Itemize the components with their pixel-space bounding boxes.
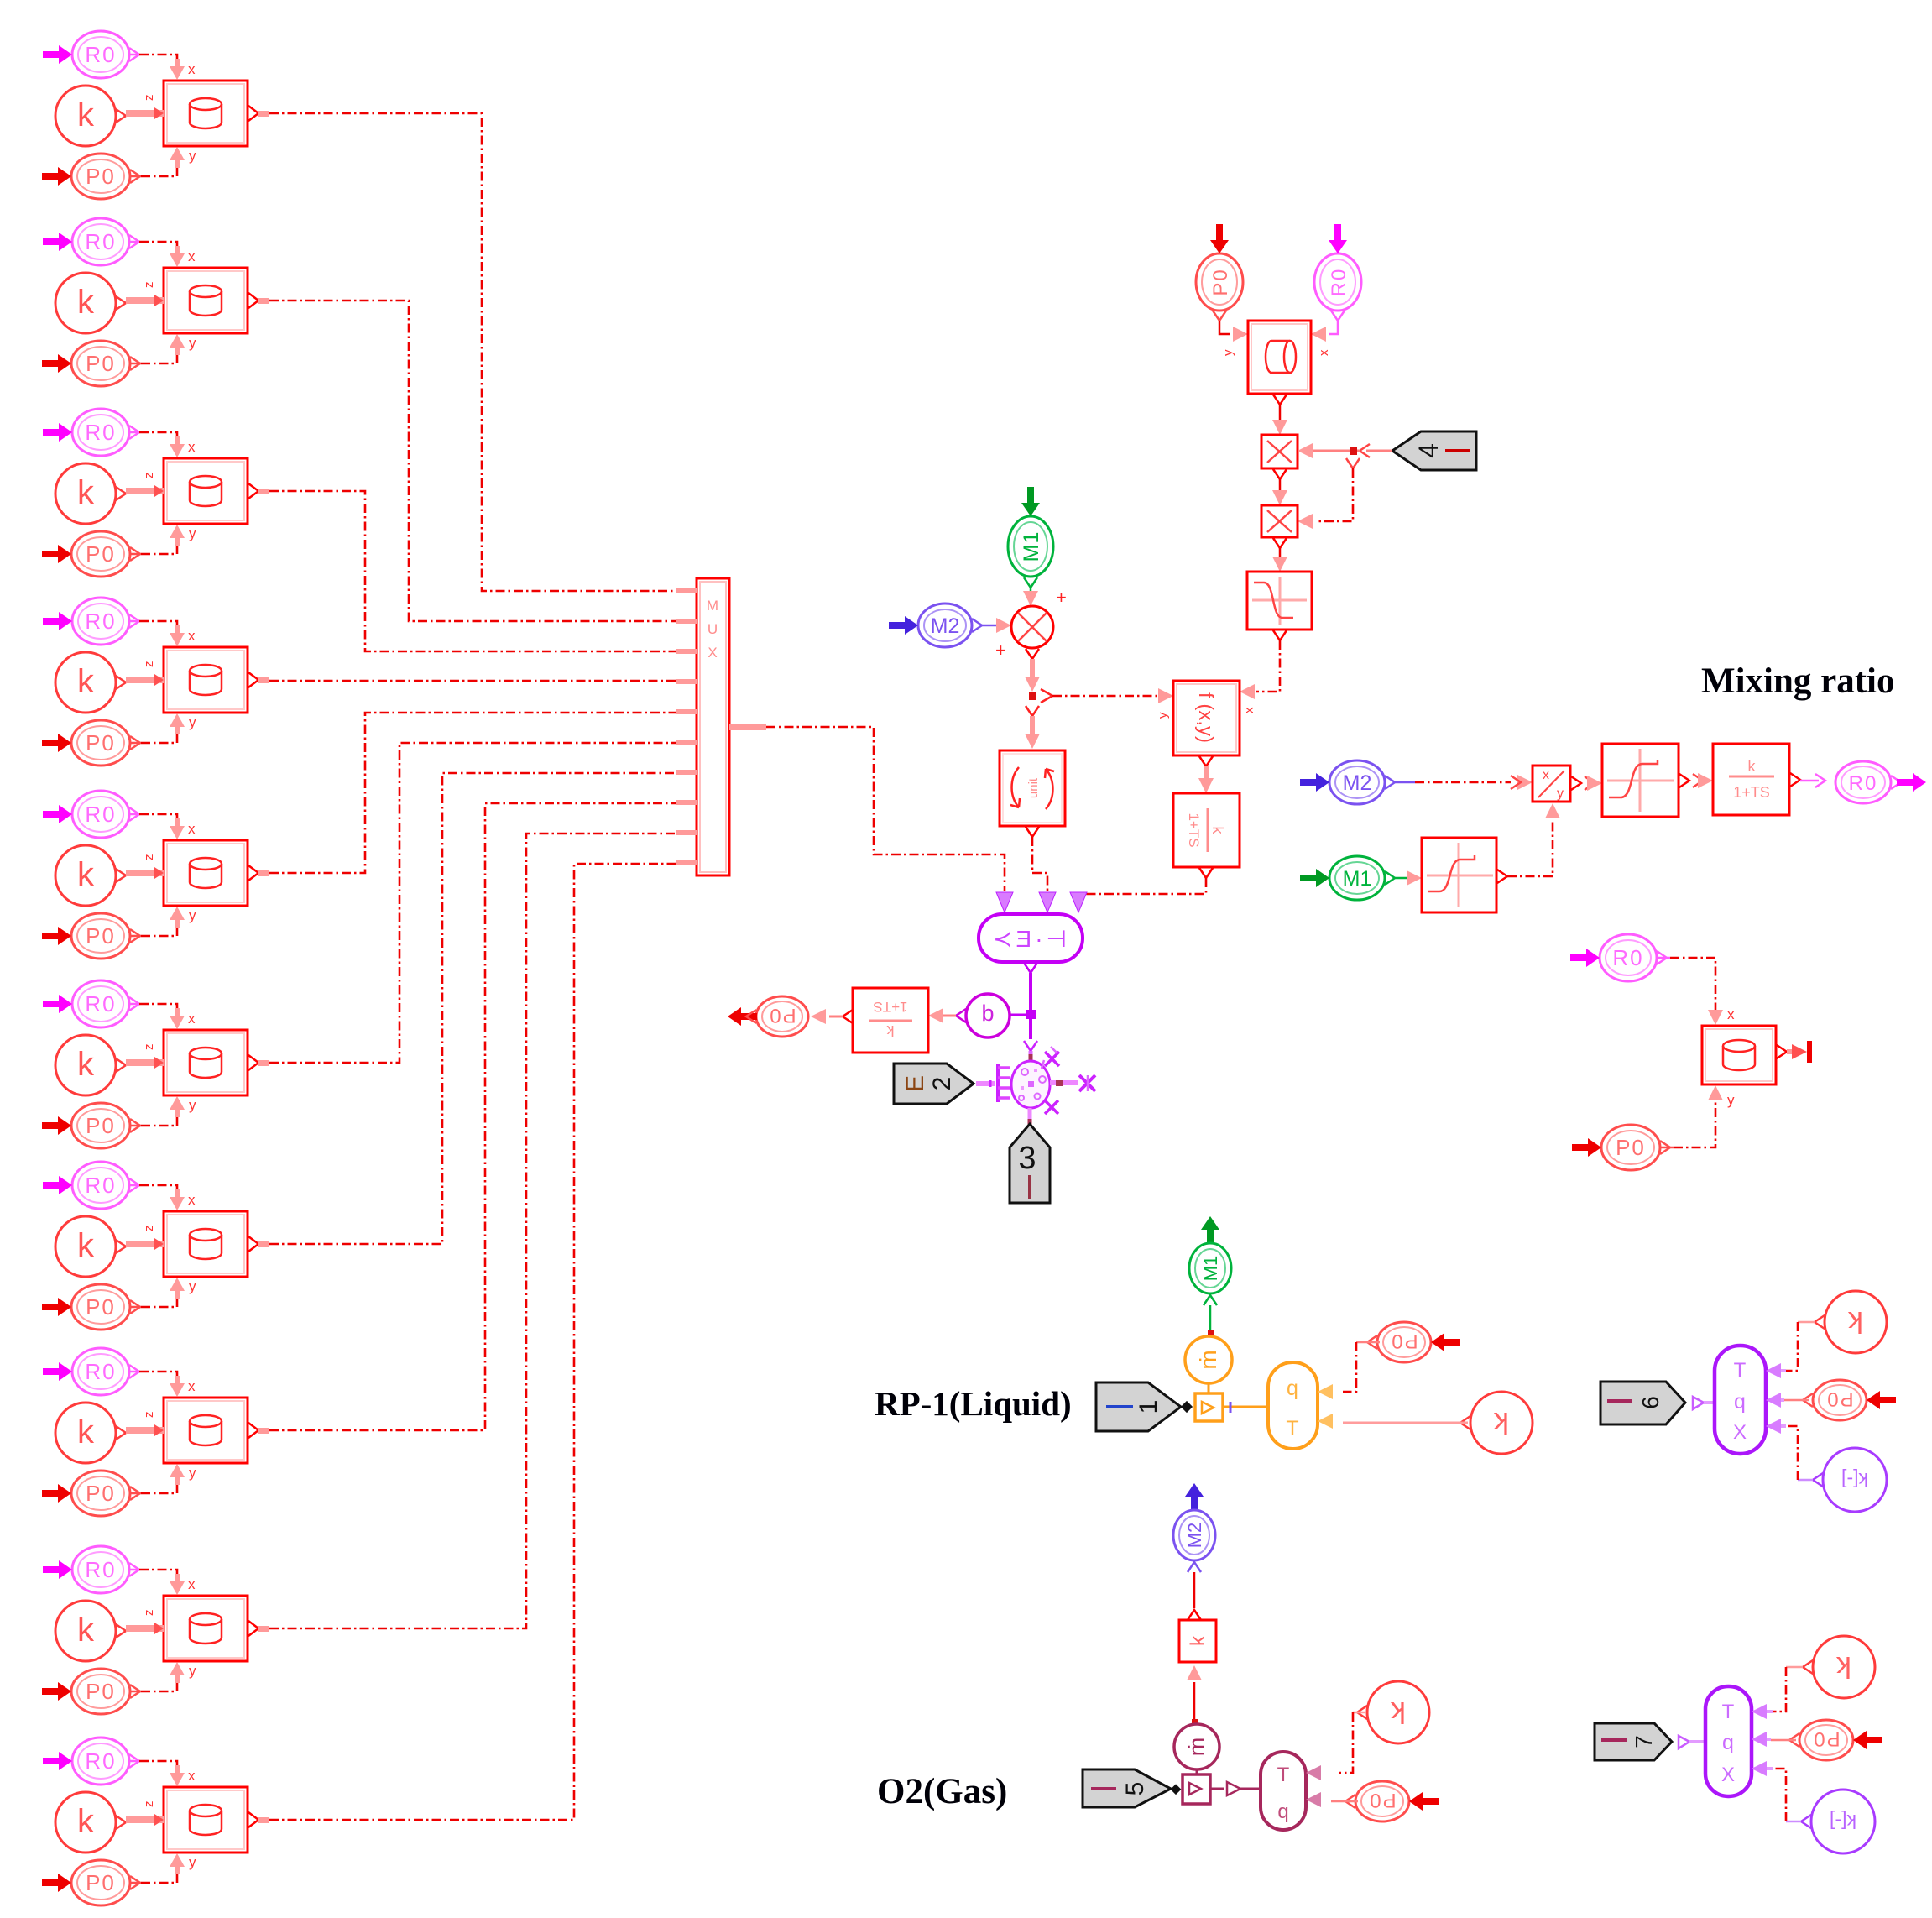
combustor injector (left flange) bbox=[976, 1064, 1010, 1102]
wire unit converter to T-E block input 2 bbox=[1032, 837, 1047, 891]
wire P0 to table y input (unit 7) bbox=[130, 1292, 177, 1307]
signal source P0 (left unit 8) bbox=[42, 1471, 140, 1516]
signal source P0 (left unit 9) bbox=[42, 1669, 140, 1714]
svg-text:1+TS: 1+TS bbox=[873, 999, 907, 1015]
constant k (O2) bbox=[1357, 1681, 1429, 1743]
svg-text:y: y bbox=[1727, 1092, 1735, 1108]
summing junction (circle with X) bbox=[995, 587, 1067, 661]
q sensor circle bbox=[956, 994, 1010, 1037]
wire table 1 output to MUX input 1 bbox=[269, 113, 676, 591]
constant k (left unit 5) bbox=[55, 845, 126, 906]
source M2 (purple) bbox=[889, 604, 982, 647]
wire R0 to table x input (unit 1) bbox=[129, 55, 177, 65]
svg-text:T: T bbox=[1722, 1701, 1735, 1723]
source P0 (right middle) bbox=[1572, 1125, 1670, 1170]
wire P0 to table y input (unit 3) bbox=[130, 539, 177, 554]
svg-text:M2: M2 bbox=[931, 614, 960, 638]
wire k[-] to TPX bottom input (tag 7) bbox=[1752, 1761, 1801, 1821]
2D lookup table block (left unit 8) bbox=[126, 1376, 269, 1485]
signal source R0 (left unit 1) bbox=[43, 31, 139, 78]
svg-text:5: 5 bbox=[1121, 1782, 1149, 1796]
2D lookup table block (left unit 6) bbox=[126, 1008, 269, 1117]
maroon valve box (O2 inlet) bbox=[1183, 1769, 1210, 1804]
signal source P0 (left unit 10) bbox=[42, 1860, 140, 1905]
svg-text:R0: R0 bbox=[1849, 772, 1878, 795]
wire mdot to gain k bbox=[1187, 1665, 1202, 1725]
wire node to unit converter bbox=[1025, 706, 1040, 749]
wire table 6 output to MUX input 6 bbox=[269, 743, 676, 1063]
svg-text:3: 3 bbox=[1018, 1141, 1036, 1176]
wire table 5 output to MUX input 5 bbox=[269, 713, 676, 873]
tag 3 (gray flag, pointing up) bbox=[1010, 1124, 1050, 1203]
svg-text:P0: P0 bbox=[1209, 268, 1232, 295]
svg-text:O2(Gas): O2(Gas) bbox=[877, 1772, 1007, 1811]
svg-text:T: T bbox=[1286, 1417, 1298, 1440]
svg-text:ṁ: ṁ bbox=[1195, 1350, 1221, 1369]
svg-text:y: y bbox=[1156, 712, 1170, 719]
node / junction after summing bbox=[1029, 689, 1052, 703]
source P0 (tag 6 group) bbox=[1803, 1380, 1896, 1420]
signal source R0 (left unit 6) bbox=[43, 980, 139, 1027]
svg-text:T: T bbox=[1734, 1359, 1747, 1382]
wire M1 to saturation 3 bbox=[1395, 870, 1422, 886]
wire node to q sensor bbox=[1010, 1014, 1026, 1016]
tag 6 (gray flag, pointing right) bbox=[1600, 1382, 1685, 1424]
wire R0 to table x input (unit 10) bbox=[129, 1761, 177, 1772]
wire P0 to table y input (unit 4) bbox=[130, 728, 177, 743]
wire node to f(x,y) y input bbox=[1052, 688, 1173, 719]
source P0 (top right, rotated) bbox=[1196, 224, 1243, 321]
wire table to multiplier 1 bbox=[1272, 405, 1287, 435]
wire table 10 output to MUX input 10 bbox=[269, 864, 676, 1820]
constant k (RP-1) bbox=[1460, 1392, 1533, 1454]
wire f(x,y) to transfer function k/(1+Ts) bbox=[1198, 766, 1214, 793]
svg-text:E: E bbox=[901, 1075, 929, 1092]
constant k (left unit 8) bbox=[55, 1403, 126, 1463]
svg-text:f (x,y): f (x,y) bbox=[1194, 692, 1217, 743]
svg-text:ṁ: ṁ bbox=[1184, 1738, 1209, 1757]
svg-text:y: y bbox=[1221, 349, 1235, 356]
svg-text:4: 4 bbox=[1413, 443, 1444, 458]
constant k[-] (tag 7 group, purple) bbox=[1801, 1790, 1875, 1853]
sink M2 (O2 flow, purple, rotated) bbox=[1173, 1483, 1215, 1560]
svg-text:RP-1(Liquid): RP-1(Liquid) bbox=[875, 1384, 1072, 1423]
transfer function block k/(1+Ts) (vertical) bbox=[1173, 793, 1240, 878]
svg-text:U: U bbox=[708, 621, 718, 637]
wire tag 4 to multiplier 1 with branch bbox=[1298, 443, 1392, 468]
svg-text:≺Ǝ·⊣: ≺Ǝ·⊣ bbox=[993, 926, 1070, 952]
signal source R0 (left unit 5) bbox=[43, 791, 139, 838]
svg-text:y: y bbox=[1557, 787, 1564, 801]
signal source P0 (left unit 3) bbox=[42, 531, 140, 577]
wire R0 to table x input (unit 9) bbox=[129, 1570, 177, 1581]
signal source R0 (left unit 9) bbox=[43, 1546, 139, 1593]
svg-text:M2: M2 bbox=[1343, 771, 1372, 795]
signal source P0 (left unit 4) bbox=[42, 720, 140, 766]
2D lookup table block (left unit 3) bbox=[126, 436, 269, 546]
wire P0 to table y input (unit 6) bbox=[130, 1111, 177, 1126]
wire divider to saturation 2 bbox=[1585, 776, 1602, 791]
wire summing junction down to node bbox=[1025, 659, 1040, 692]
f(x,y) function block bbox=[1173, 681, 1240, 766]
unit converter block bbox=[1000, 750, 1065, 837]
2D lookup table block (top right, rotated) bbox=[1248, 321, 1311, 405]
svg-text:X: X bbox=[1721, 1764, 1735, 1786]
wire R0 to table x input (unit 8) bbox=[129, 1372, 177, 1382]
wire table 9 output to MUX input 9 bbox=[269, 834, 676, 1628]
svg-text:k: k bbox=[1187, 1635, 1209, 1646]
svg-text:+: + bbox=[1056, 587, 1067, 608]
signal source P0 (left unit 5) bbox=[42, 913, 140, 959]
source M1 (green, rotated) bbox=[1008, 487, 1053, 588]
source M1 (mixing ratio row) bbox=[1300, 856, 1395, 900]
2D lookup table block (left unit 10) bbox=[126, 1765, 269, 1874]
svg-text:M1: M1 bbox=[1200, 1256, 1221, 1282]
wire saturation1 to f(x,y) x input bbox=[1240, 640, 1280, 713]
constant k (left unit 2) bbox=[55, 273, 126, 333]
svg-text:1: 1 bbox=[1135, 1400, 1162, 1414]
svg-text:R0: R0 bbox=[1328, 268, 1350, 297]
signal source P0 (left unit 7) bbox=[42, 1284, 140, 1330]
wire k to TPX top input (tag 7) bbox=[1752, 1667, 1803, 1719]
signal source P0 (left unit 1) bbox=[42, 154, 140, 199]
wire P0 to table y input (unit 5) bbox=[130, 921, 177, 936]
source P0 (RP-1 pressure) bbox=[1367, 1322, 1460, 1362]
svg-text:1+TS: 1+TS bbox=[1733, 784, 1770, 801]
signal source R0 (left unit 3) bbox=[43, 409, 139, 456]
transfer function block k/(1+TS) (mixing ratio) bbox=[1713, 744, 1800, 815]
wire R0 to table x input (top right) bbox=[1311, 321, 1338, 356]
wire table 7 output to MUX input 7 bbox=[269, 773, 676, 1244]
saturation block 3 bbox=[1422, 838, 1507, 912]
PT source stadium (RP-1, orange) bbox=[1268, 1362, 1318, 1449]
svg-text:X: X bbox=[708, 645, 717, 661]
svg-text:q: q bbox=[981, 1004, 994, 1029]
wire P0 to table y input (right middle) bbox=[1660, 1085, 1735, 1147]
multiplier box 1 bbox=[1261, 435, 1298, 479]
wire M2 to divider x/y bbox=[1395, 775, 1533, 790]
T-E mixing block (purple stadium) with 3 input arrows bbox=[979, 892, 1087, 973]
constant k (left unit 9) bbox=[55, 1601, 126, 1661]
wire T-E block to combustor node bbox=[1026, 973, 1036, 1019]
TP source stadium (O2, maroon) bbox=[1261, 1752, 1306, 1830]
wire MUX output to T-E block input 1 bbox=[766, 727, 1005, 891]
svg-text:x: x bbox=[1543, 768, 1549, 782]
wire valve box to PT source (orange) bbox=[1223, 1402, 1266, 1413]
svg-text:unit: unit bbox=[1026, 777, 1041, 798]
mass flow sensor mdot (orange circle) bbox=[1185, 1336, 1232, 1383]
wire k to TP stadium top input bbox=[1306, 1712, 1366, 1780]
signal source R0 (left unit 4) bbox=[43, 598, 139, 645]
wire k[-] to TPX bottom input bbox=[1766, 1419, 1813, 1480]
combustor bottom-right valve bbox=[1045, 1100, 1058, 1114]
wire R0 to table x input (unit 3) bbox=[129, 432, 177, 443]
saturation block 2 bbox=[1602, 744, 1689, 817]
source P0 (O2 pressure) bbox=[1345, 1781, 1439, 1821]
wire P0 to table y input (unit 9) bbox=[130, 1676, 177, 1691]
svg-text:1+TS: 1+TS bbox=[1186, 813, 1202, 847]
svg-text:x: x bbox=[1727, 1006, 1735, 1022]
wire tag 6 to TPX block bbox=[1693, 1397, 1714, 1409]
2D lookup table block (left unit 2) bbox=[126, 246, 269, 355]
divider block x/y bbox=[1533, 766, 1581, 802]
wire k to PT stadium bottom input bbox=[1318, 1414, 1468, 1429]
tag 5 (gray flag, pointing right) bbox=[1083, 1769, 1181, 1807]
signal source R0 (left unit 10) bbox=[43, 1738, 139, 1785]
wire R0 to table x input (right middle) bbox=[1657, 958, 1735, 1025]
wire P0 to table y input (top right) bbox=[1219, 321, 1248, 356]
svg-text:M: M bbox=[707, 598, 718, 614]
svg-text:P0: P0 bbox=[768, 1004, 796, 1027]
TPX probe stadium (tag 7, purple) bbox=[1705, 1686, 1752, 1796]
combustor right outlet with valve bbox=[1050, 1075, 1095, 1091]
wire table output to terminator bbox=[1787, 1041, 1812, 1063]
sink M1 (RP-1 flow, green, rotated) bbox=[1189, 1216, 1231, 1293]
constant k (left unit 1) bbox=[55, 86, 126, 146]
svg-text:6: 6 bbox=[1637, 1396, 1663, 1409]
tag 1 (gray flag, pointing right) bbox=[1096, 1382, 1193, 1431]
source R0 (right middle) bbox=[1570, 934, 1667, 981]
transfer function block k/(1+Ts) (combustor output, rotated 180) bbox=[843, 988, 928, 1053]
svg-text:7: 7 bbox=[1631, 1735, 1657, 1748]
wire R0 to table x input (unit 7) bbox=[129, 1185, 177, 1196]
2D lookup table block (left unit 1) bbox=[126, 59, 269, 168]
wire table 4 output to MUX input 4 bbox=[269, 680, 676, 682]
svg-text:q: q bbox=[1722, 1731, 1734, 1754]
constant k[-] (tag 6 group, purple) bbox=[1813, 1448, 1887, 1512]
svg-text:k: k bbox=[1748, 758, 1757, 775]
MUX multiplexer block bbox=[676, 578, 766, 875]
source M2 (mixing ratio row) bbox=[1300, 760, 1395, 804]
wire q sensor to transfer function 2 bbox=[928, 1008, 956, 1023]
2D lookup table block (left unit 9) bbox=[126, 1574, 269, 1683]
source P0 (tag 7 group) bbox=[1789, 1720, 1882, 1760]
wire M1 to summing junction bbox=[1023, 588, 1038, 606]
wire saturation2 to gain k/(1+TS) bbox=[1693, 773, 1713, 788]
constant k (left unit 6) bbox=[55, 1035, 126, 1095]
wire P0 to table y input (unit 10) bbox=[130, 1868, 177, 1883]
wire node down to combustor bbox=[1024, 1019, 1037, 1061]
wire transfer function to R0 output bbox=[1800, 774, 1825, 787]
wire branch to multiplier 2 bbox=[1298, 468, 1353, 529]
sink P0 (combustion pressure output) bbox=[728, 996, 808, 1037]
svg-text:M1: M1 bbox=[1020, 531, 1043, 562]
constant k (tag 7 group) bbox=[1803, 1636, 1875, 1698]
constant k (tag 6 group) bbox=[1815, 1291, 1887, 1353]
svg-text:2: 2 bbox=[928, 1077, 956, 1091]
wire k to TPX top input bbox=[1766, 1322, 1815, 1378]
sink R0 (mixing ratio output) bbox=[1835, 761, 1926, 803]
signal source P0 (left unit 6) bbox=[42, 1103, 140, 1148]
svg-text:x: x bbox=[1317, 349, 1331, 356]
constant k (left unit 4) bbox=[55, 652, 126, 713]
wire gain k to M2 bbox=[1188, 1562, 1201, 1608]
TPX probe stadium (tag 6, purple) bbox=[1715, 1346, 1766, 1454]
2D lookup table block (left unit 4) bbox=[126, 625, 269, 734]
constant k (left unit 10) bbox=[55, 1792, 126, 1853]
multiplier box 2 bbox=[1261, 505, 1298, 548]
combustion chamber bbox=[1011, 1061, 1050, 1108]
gain block k (O2) bbox=[1179, 1610, 1216, 1662]
wire P0 to TPX middle input bbox=[1766, 1393, 1809, 1408]
wire P0 to TPX middle input (tag 7) bbox=[1752, 1732, 1796, 1747]
saturation block 1 bbox=[1247, 572, 1312, 640]
wire P0 to TP stadium bottom input bbox=[1306, 1792, 1358, 1807]
svg-text:k: k bbox=[1209, 827, 1226, 835]
wire R0 to table x input (unit 5) bbox=[129, 814, 177, 825]
wire saturation3 to divider bottom input bbox=[1507, 803, 1560, 876]
2D lookup table block (left unit 5) bbox=[126, 818, 269, 928]
constant k (left unit 7) bbox=[55, 1216, 126, 1277]
svg-text:x: x bbox=[1242, 707, 1256, 713]
svg-text:+: + bbox=[995, 640, 1006, 661]
wire P0 to table y input (unit 8) bbox=[130, 1478, 177, 1493]
wire multiplier2 to saturation 1 bbox=[1272, 548, 1287, 572]
wire R0 to table x input (unit 6) bbox=[129, 1004, 177, 1015]
2D lookup table block (right middle) bbox=[1702, 1026, 1787, 1084]
svg-text:X: X bbox=[1733, 1421, 1747, 1444]
wire M2 to summing junction bbox=[982, 618, 1011, 633]
svg-text:q: q bbox=[1277, 1800, 1288, 1823]
wire combustor to tag 3 bbox=[1028, 1108, 1032, 1125]
orange valve box (RP-1 inlet) bbox=[1195, 1383, 1223, 1421]
signal source R0 (left unit 8) bbox=[43, 1348, 139, 1395]
combustor top-right valve bbox=[1042, 1047, 1059, 1069]
mass flow sensor mdot (O2, maroon circle) bbox=[1174, 1724, 1219, 1769]
2D lookup table block (left unit 7) bbox=[126, 1189, 269, 1299]
wire P0 to table y input (unit 2) bbox=[130, 348, 177, 363]
svg-text:Mixing ratio: Mixing ratio bbox=[1701, 661, 1895, 701]
signal source P0 (left unit 2) bbox=[42, 341, 140, 386]
wire valve box to TP source (maroon) bbox=[1210, 1782, 1259, 1795]
wire transfer function 2 to P0 output bbox=[811, 1009, 843, 1024]
svg-text:M1: M1 bbox=[1343, 867, 1372, 891]
wire transfer function to T-E block input 3 bbox=[1078, 878, 1206, 894]
svg-text:q: q bbox=[1287, 1377, 1298, 1400]
wire P0 to table y input (unit 1) bbox=[130, 161, 177, 176]
wire mdot to M1 bbox=[1204, 1295, 1217, 1335]
svg-text:M2: M2 bbox=[1184, 1523, 1205, 1549]
signal source R0 (left unit 7) bbox=[43, 1162, 139, 1209]
signal source R0 (left unit 2) bbox=[43, 218, 139, 265]
constant k (left unit 3) bbox=[55, 463, 126, 524]
wire R0 to table x input (unit 4) bbox=[129, 621, 177, 632]
svg-text:T: T bbox=[1277, 1764, 1290, 1786]
wire R0 to table x input (unit 2) bbox=[129, 242, 177, 253]
wire table 2 output to MUX input 2 bbox=[269, 301, 676, 621]
wire multiplier1 to multiplier2 bbox=[1272, 479, 1287, 505]
wire table 3 output to MUX input 3 bbox=[269, 491, 676, 651]
tag 4 (gray flag) bbox=[1392, 431, 1476, 470]
wire table 8 output to MUX input 8 bbox=[269, 803, 676, 1430]
svg-text:q: q bbox=[1734, 1390, 1746, 1414]
wire tag 7 to TPX block bbox=[1679, 1736, 1705, 1748]
tag 2 (gray flag, pointing right) bbox=[894, 1064, 974, 1104]
wire P0 to PT stadium top input bbox=[1318, 1342, 1380, 1399]
tag 7 (gray flag, pointing right) bbox=[1595, 1723, 1672, 1760]
source R0 (top right, rotated) bbox=[1314, 224, 1361, 321]
svg-text:k: k bbox=[886, 1022, 895, 1039]
